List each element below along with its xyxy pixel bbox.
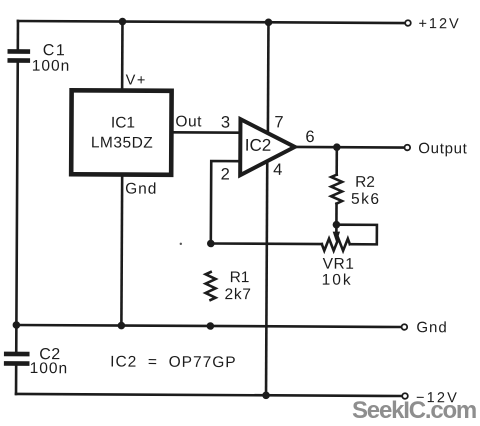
svg-text:+12V: +12V <box>418 16 460 32</box>
wire R2 top lead <box>335 147 338 174</box>
svg-text:2: 2 <box>221 166 230 184</box>
svg-text:100n: 100n <box>30 360 69 377</box>
node junction output / R2 <box>333 143 341 151</box>
node junction top rail / pin 7 <box>265 18 273 26</box>
svg-text:LM35DZ: LM35DZ <box>91 134 154 151</box>
wire R2 bottom lead to node <box>335 204 338 225</box>
svg-text:Out: Out <box>175 113 202 130</box>
wire op-amp pin 7 from top rail <box>267 22 270 134</box>
svg-text:2k7: 2k7 <box>225 286 252 303</box>
op-amp U1 IC2 triangle <box>240 119 295 175</box>
node junction top rail / IC1 V+ <box>119 18 127 26</box>
svg-text:5k6: 5k6 <box>351 191 381 208</box>
potentiometer VR1 body <box>322 239 350 251</box>
svg-text:IC1: IC1 <box>111 114 135 131</box>
wire left vertical top rail to C1 <box>17 21 20 49</box>
svg-text:10k: 10k <box>322 272 353 289</box>
terminal Gnd <box>402 324 408 330</box>
svg-text:4: 4 <box>273 161 282 179</box>
svg-text:Output: Output <box>418 140 467 157</box>
wire feedback node to VR1 left end <box>211 242 322 245</box>
wire op-amp pin 2 <box>211 161 240 244</box>
wire node to VR1 right end loop <box>336 225 377 245</box>
potentiometer VR1 wiper arrow <box>335 225 338 233</box>
wire top +12V rail <box>18 21 404 23</box>
wire IC1 Gnd pin down to Gnd rail <box>120 175 123 326</box>
wire op-amp output to terminal <box>294 146 403 149</box>
resistor R1 <box>206 272 216 300</box>
node junction R2 / wiper loop <box>333 221 341 229</box>
terminal -12V <box>402 393 408 399</box>
wire IC1 V+ pin <box>121 22 124 91</box>
svg-text:7: 7 <box>274 113 283 131</box>
terminal Output <box>405 145 411 151</box>
capacitor C1 <box>10 51 28 60</box>
node junction feedback / R1 / pin 2 <box>207 240 215 248</box>
svg-text:V+: V+ <box>126 73 147 89</box>
IC1 LM35DZ box <box>71 90 171 175</box>
wire IC1 Out to op-amp pin 3 <box>171 131 240 134</box>
svg-text:Gnd: Gnd <box>416 319 447 336</box>
node junction R1 / Gnd rail <box>207 322 215 330</box>
svg-text:R2: R2 <box>355 174 375 191</box>
wire Gnd rail <box>16 325 400 327</box>
wire left vertical Gnd rail to C2 <box>15 325 18 351</box>
node junction left wire / Gnd rail <box>13 321 21 329</box>
node junction IC1 Gnd / Gnd rail <box>118 322 126 330</box>
svg-text:IC2: IC2 <box>245 136 272 155</box>
wire left vertical C1 to Gnd rail <box>16 63 17 325</box>
wire op-amp pin 4 down to -12V rail <box>266 161 267 395</box>
svg-text:SeekIC.com: SeekIC.com <box>352 397 476 424</box>
wire left vertical C2 to bottom rail <box>15 366 18 394</box>
svg-text:6: 6 <box>305 128 314 146</box>
svg-text:VR1: VR1 <box>323 256 355 273</box>
svg-text:100n: 100n <box>32 58 71 75</box>
svg-text:3: 3 <box>221 114 230 132</box>
svg-text:Gnd: Gnd <box>125 181 157 198</box>
terminal +12V <box>405 20 411 26</box>
stray mark <box>180 243 182 245</box>
resistor R2 <box>331 175 342 204</box>
wire bottom -12V rail <box>16 394 401 396</box>
svg-text:R1: R1 <box>230 269 250 286</box>
capacitor C2 <box>6 354 27 364</box>
svg-text:IC2 = OP77GP: IC2 = OP77GP <box>110 353 237 371</box>
node junction pin 4 line / -12V rail <box>262 391 270 399</box>
